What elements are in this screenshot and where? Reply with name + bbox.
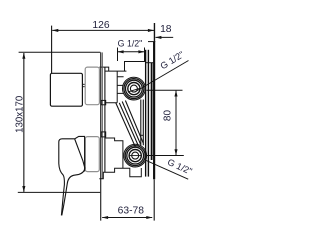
svg-text:18: 18: [160, 24, 172, 35]
svg-text:G 1/2": G 1/2": [166, 157, 194, 177]
port box top edge: [125, 62, 146, 72]
wire: vertical dimension line 80 with arrows: [175, 91, 177, 156]
wire: top extension line of plate (y=52.2): [19, 51, 101, 53]
port column between circles: [140, 100, 142, 146]
wire: vertical dimension line 130x170 with arrows: [23, 53, 25, 192]
body mounting flange front line: [145, 50, 146, 177]
node: 126 left extension line: [51, 26, 53, 74]
svg-text:63-78: 63-78: [118, 206, 145, 217]
wall face line (edge-on): [153, 42, 155, 180]
lever handle block: [59, 136, 85, 171]
wire: dimension line 126 with arrows: [52, 29, 154, 31]
svg-text:130x170: 130x170: [15, 95, 26, 133]
body front edge: [104, 67, 106, 172]
leader: bottom right G 1/2": [146, 160, 188, 179]
wire: 80 bottom extension line: [147, 155, 184, 157]
svg-text:G 1/2": G 1/2": [118, 38, 143, 48]
port circle bottom: [124, 144, 147, 167]
lever blade inner edge: [62, 139, 85, 215]
body bottom steps + under-circle box: [99, 168, 141, 179]
G 1/2 top left tick: [117, 48, 119, 62]
wire: small line at y=62.7 near wall: [146, 62, 155, 64]
svg-text:126: 126: [92, 20, 109, 31]
node: 126/18 right extension line: [153, 23, 155, 42]
svg-text:G 1/2": G 1/2": [159, 49, 186, 71]
wall plate inner line (edge-on): [151, 63, 153, 160]
escutcheon front double line: [100, 52, 102, 220]
knob side ticks: [82, 83, 85, 85]
mounting lug bottom: [101, 132, 105, 137]
port circle top: [122, 77, 145, 100]
G 1/2 top right tick: [144, 48, 146, 62]
lever blade outer edge: [59, 142, 65, 215]
knob sleeve (grey rounded rect): [85, 67, 99, 105]
leader: top right G 1/2": [137, 61, 189, 92]
wire: bottom extension line (y=191.8): [18, 191, 101, 193]
wire: wall line below plate + 63-78 right extension: [153, 180, 155, 221]
wall plate top cap: [148, 41, 155, 43]
knob (front square handle): [50, 73, 82, 106]
upper fitting flats: [105, 71, 124, 103]
wire: dimension line 18 with arrow: [156, 36, 174, 38]
wire: 80 top extension line: [147, 89, 183, 91]
lower fitting flats: [105, 138, 123, 168]
lever sleeve (grey rounded rect): [85, 137, 99, 172]
G 1/2 top dimension arrows: [118, 51, 145, 53]
body mounting flange rear line: [148, 50, 149, 177]
upper body stepped profile: [99, 67, 126, 71]
diagonal tube between ports: [116, 101, 144, 147]
svg-text:80: 80: [163, 110, 174, 122]
mounting lug top: [101, 100, 105, 104]
wire: 63-78 dimension line with arrows: [102, 217, 152, 219]
